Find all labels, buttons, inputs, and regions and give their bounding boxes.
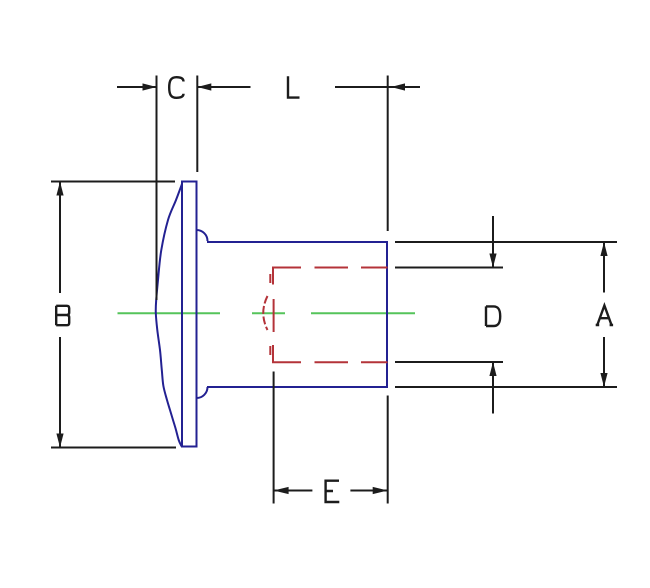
dimension D label [486, 306, 500, 326]
dimension D extension line top [395, 267, 503, 269]
dimension A arrow bottom (pointing down) [600, 373, 607, 387]
part outline: shank bottom fillet [197, 387, 208, 398]
dimension A arrow top (pointing up) [600, 242, 607, 256]
dimension A extension line bottom [395, 386, 617, 388]
hidden hole top left corner dash (red) [273, 268, 301, 285]
dimension D line upper [492, 216, 494, 268]
dimension D arrow top (pointing down) [489, 254, 496, 268]
part outline: shank end cap [386, 241, 388, 388]
hidden hole left top inner dash [269, 274, 271, 283]
dimension C leader line left [117, 86, 157, 88]
dimension L arrow right (pointing left) [391, 83, 405, 90]
part outline: shank bottom line [207, 386, 387, 388]
hidden hole mid vertical dash [273, 299, 275, 332]
dimension L label [288, 76, 300, 97]
dimension D extension line bottom [395, 361, 503, 363]
dimension D arrow bottom (pointing up) [489, 362, 496, 376]
dimension E arrow right (pointing right) [373, 487, 388, 494]
dimension A line lower [603, 337, 605, 387]
dimension C arrow left (pointing right) [143, 83, 157, 90]
dimension E label [326, 481, 340, 502]
dimension E arrow left (pointing left) [274, 487, 289, 494]
hidden hole top line dash 2 [315, 267, 349, 269]
dimension B label [56, 306, 69, 325]
hidden hole bottom line dash 2 [315, 361, 349, 363]
hidden hole bottom line dash 3 [361, 361, 388, 363]
dimension C extension line right [196, 76, 198, 173]
dimension B arrow bottom (pointing down) [56, 434, 63, 448]
hidden hole top line dash 3 [361, 267, 388, 269]
hidden hole end bracket (drill point, red dashed) [263, 296, 267, 330]
part outline: head bottom edge [181, 446, 198, 448]
dimension L extension line right [387, 76, 389, 232]
part outline: head face right vertical [196, 182, 198, 447]
dimension E line left [274, 490, 313, 492]
dimension E extension line right [387, 396, 389, 504]
dimension D line lower [492, 362, 494, 414]
centerline (green) [118, 312, 416, 314]
dimension L line right [335, 86, 420, 88]
part outline: head face left vertical [181, 182, 183, 447]
hidden hole left bottom inner dash [269, 346, 271, 355]
part outline: head dome curve (blue) [156, 184, 182, 446]
dimension B arrow top (pointing up) [56, 182, 63, 196]
dimension E line right [350, 490, 387, 492]
dimension B extension line top [51, 181, 175, 183]
dimension B line lower [59, 337, 61, 448]
hidden hole bottom left corner dash (red) [273, 345, 301, 362]
dimension A label [596, 306, 613, 326]
dimension C arrow right (pointing left) [197, 83, 211, 90]
part outline: shank top fillet [197, 230, 208, 241]
dimension B extension line bottom [51, 447, 176, 449]
dimension C extension line left [156, 76, 158, 301]
part outline: shank top line [207, 241, 387, 243]
dimension E extension line left [273, 372, 275, 504]
dimension A extension line top [395, 241, 617, 243]
dimension A line upper [603, 242, 605, 293]
part outline: head top edge [181, 181, 198, 183]
dimension C label [169, 77, 183, 98]
dimension C/L line middle [197, 86, 250, 88]
dimension B line upper [59, 182, 61, 294]
